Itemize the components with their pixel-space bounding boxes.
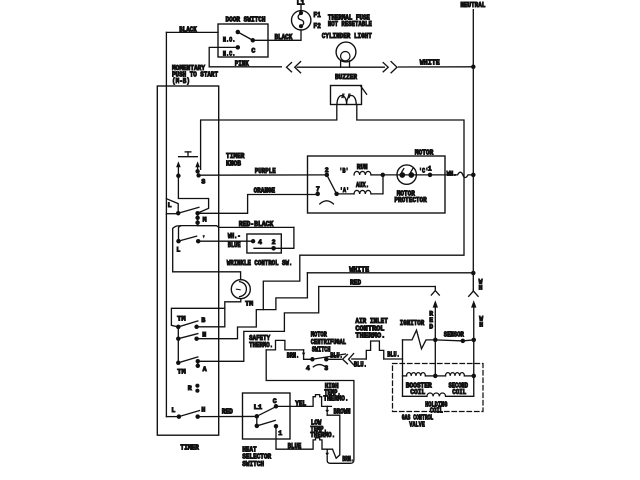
svg-text:WHITE: WHITE: [420, 60, 440, 68]
svg-text:BLU.: BLU.: [387, 351, 400, 359]
door switch common C contact: [251, 38, 256, 43]
wh connector arrow to sensor: [471, 300, 476, 340]
label 1 selector: [278, 430, 282, 437]
label AIR INLET CONTROL THERMO.: [355, 318, 388, 341]
wire blue to gas valve: [384, 358, 403, 360]
connector chevrons pink wire: [287, 62, 301, 73]
timer box: [157, 86, 218, 435]
motor box: [308, 156, 446, 213]
svg-text:S: S: [201, 178, 205, 185]
air inlet control thermostat bump: [366, 341, 383, 359]
svg-text:SENSOR: SENSOR: [444, 331, 465, 339]
wire black to contact L bottom: [166, 416, 179, 418]
wire red H to heat selector L1: [198, 415, 257, 417]
label PINK: [235, 60, 250, 68]
label YEL: [295, 401, 306, 409]
heat selector switch box: [243, 393, 291, 439]
label 2: [272, 239, 276, 246]
motor junction dot run/aux: [381, 173, 386, 178]
svg-text:4: 4: [258, 239, 262, 246]
label WHITE mid: [349, 267, 369, 275]
motor centrifugal actuator arc: [320, 201, 334, 204]
svg-text:TM: TM: [245, 300, 253, 307]
svg-text:BRN.: BRN.: [342, 456, 354, 464]
motor start switch dot: [334, 192, 339, 197]
svg-text:4: 4: [306, 365, 310, 372]
svg-text:COIL: COIL: [410, 389, 425, 397]
svg-text:N.C.: N.C.: [223, 50, 236, 57]
svg-text:RED: RED: [222, 409, 233, 417]
svg-text:DOOR SWITCH: DOOR SWITCH: [226, 17, 266, 25]
wire orange M to motor terminal 7: [198, 195, 318, 214]
label N.C.: [223, 50, 236, 57]
label MOTOR: [415, 150, 434, 158]
label DOOR SWITCH: [226, 17, 266, 25]
wire blue selector 1 to low temp thermostat: [276, 426, 333, 449]
timer contact W dot (wrinkle): [176, 239, 181, 244]
sensor dot right: [472, 338, 477, 343]
label 'C': [419, 167, 429, 174]
gas control valve dashed box: [393, 364, 484, 412]
wire brn return to safety thermo: [266, 350, 354, 463]
label BOOSTER COIL: [406, 383, 433, 397]
timer contact B dot: [194, 325, 199, 330]
label HEAT SELECTOR SWITCH: [242, 446, 272, 469]
timer contact S dots: [195, 169, 200, 177]
svg-text:BROWN: BROWN: [334, 409, 351, 417]
wire red to igniter connector: [319, 286, 436, 288]
wire TM bottom to contact B: [199, 299, 241, 327]
label RUN: [357, 164, 368, 172]
label NEUTRAL: [460, 2, 485, 10]
svg-text:THERMO.: THERMO.: [249, 342, 273, 350]
label TM switch 2: [177, 369, 186, 376]
svg-text:AUX.: AUX.: [356, 182, 369, 190]
motor aux winding: [337, 175, 383, 194]
door switch DS1 box: [218, 24, 268, 57]
wire timer cam common feed: [171, 308, 224, 338]
timer switch arm TM-B: [178, 321, 198, 327]
label F1: [313, 12, 321, 20]
svg-text:WH.-: WH.-: [228, 233, 241, 241]
svg-text:THERMO.: THERMO.: [323, 396, 348, 404]
timer contact N left dot: [176, 336, 181, 341]
high temp output connector arrow: [325, 406, 329, 415]
svg-text:H: H: [201, 406, 205, 413]
centrifugal switch terminal 3 dot: [324, 357, 329, 362]
wrinkle terminal 4 dot: [251, 239, 255, 243]
svg-text:BUZZER: BUZZER: [335, 74, 358, 82]
buzzer left leg wire to timer S: [201, 105, 337, 170]
label S: [201, 178, 205, 185]
timer contact TM left dot: [176, 325, 181, 330]
label GAS CONTROL VALVE: [402, 414, 434, 429]
wire pink-white under cylinder light: [297, 66, 384, 68]
svg-text:BLUE: BLUE: [228, 242, 241, 250]
svg-text:L: L: [176, 246, 180, 253]
svg-text:N: N: [202, 332, 206, 339]
label CYLINDER LIGHT: [322, 33, 372, 41]
red connector chevron: [431, 287, 439, 296]
svg-text:L: L: [168, 202, 172, 209]
label W H vertical upper: [479, 278, 483, 291]
timer contact W right dot: [196, 239, 201, 244]
timer knob symbol: [179, 152, 198, 157]
svg-text:B: B: [201, 317, 205, 324]
door switch arm N.O.-C: [238, 32, 253, 40]
svg-text:TM: TM: [177, 316, 186, 323]
wrinkle terminal 2 dot and stub: [254, 246, 276, 251]
label 7: [316, 186, 320, 193]
door switch N.O. contact: [236, 30, 241, 35]
svg-text:WHITE: WHITE: [349, 267, 369, 275]
gas valve right rail: [473, 340, 475, 396]
label BLACK right: [275, 34, 293, 42]
wrinkle control terminal 2 wire: [274, 227, 294, 248]
label N: [202, 332, 206, 339]
svg-text:BRN.: BRN.: [287, 352, 300, 360]
motor terminal 7 dot: [315, 192, 320, 197]
label WH.: [447, 170, 457, 177]
svg-text:COIL: COIL: [452, 389, 466, 397]
gas valve left rail: [402, 340, 404, 396]
power line L1 label: [297, 0, 305, 8]
label BUZZER: [335, 74, 358, 82]
wire motor WH to neutral: [430, 172, 473, 177]
timer knob left arrow dot: [176, 174, 181, 179]
wire white mid to neutral: [307, 272, 473, 274]
label THERMAL FUSE NOT RESETABLE: [328, 15, 372, 30]
timer contact N dot: [194, 336, 199, 341]
label L bottom: [171, 407, 175, 414]
wire blue to air inlet thermo: [352, 358, 367, 360]
svg-text:TM: TM: [177, 369, 186, 376]
low temp output connector arrow: [325, 449, 329, 456]
svg-text:ORANGE: ORANGE: [254, 188, 276, 196]
svg-text:SWITCH: SWITCH: [242, 461, 264, 469]
centrifugal actuator arc 4-3: [313, 365, 325, 367]
svg-text:1: 1: [278, 430, 282, 437]
label BRN.: [287, 352, 300, 360]
heat selector left lower dot: [255, 416, 260, 428]
wire M to thermostat TM top: [173, 272, 241, 280]
momentary contact L dot: [176, 211, 181, 216]
igniter HE1 zigzag: [403, 330, 436, 349]
svg-text:PINK: PINK: [235, 60, 250, 68]
radiant sensor line: [435, 340, 473, 341]
heat selector arm lower-1: [257, 420, 275, 426]
label MOMENTARY PUSH TO START (M-B): [172, 65, 218, 86]
svg-text:WRINKLE CONTROL SW.: WRINKLE CONTROL SW.: [227, 260, 293, 268]
label 4: [258, 239, 262, 246]
label L1 selector: [254, 404, 263, 411]
label HOLDING COIL: [425, 401, 447, 415]
timer contact A dots: [196, 359, 201, 368]
svg-text:PURPLE: PURPLE: [255, 168, 276, 176]
svg-text:3: 3: [324, 365, 328, 372]
label W H vertical lower: [479, 315, 483, 328]
timer knob left arrow: [176, 161, 181, 173]
timer contact L bottom dot: [177, 414, 182, 419]
wh connector chevron: [469, 290, 478, 296]
buzzer right leg wire to neutral-N staircase: [263, 105, 464, 310]
label IGNITOR: [400, 320, 425, 328]
svg-text:BLACK: BLACK: [275, 34, 293, 42]
svg-text:C: C: [251, 48, 255, 55]
label SAFETY THERMO.: [249, 335, 273, 350]
wire 3 to blue connector: [326, 358, 341, 360]
svg-text:7: 7: [316, 186, 320, 193]
junction dot booster/second: [433, 374, 438, 379]
cylinder light LT1: [336, 42, 356, 67]
svg-text:PROTECTOR: PROTECTOR: [394, 197, 427, 205]
junction dot second/right rail: [472, 374, 477, 379]
label 1: [428, 166, 432, 173]
wire A to red staircase (igniter feed): [198, 287, 319, 362]
label PURPLE: [255, 168, 276, 176]
timer contact A left column: [177, 339, 179, 363]
centrifugal switch arm 4-3: [312, 354, 345, 359]
label HIGH TEMP. THERMO.: [323, 383, 348, 404]
svg-text:IGNITOR: IGNITOR: [400, 320, 425, 328]
holding coil: [403, 393, 474, 396]
timer contact A left dot: [176, 361, 181, 366]
label 4 centrifugal: [306, 365, 310, 372]
label 'A': [340, 187, 350, 194]
label BLUE selector: [288, 443, 302, 451]
door switch N.C. contact: [236, 45, 241, 50]
svg-text:BLACK: BLACK: [179, 27, 197, 35]
label BLU. right of arm: [330, 353, 343, 361]
timer switch arm W: [179, 235, 206, 241]
label BLU. right of bump: [387, 351, 400, 359]
label MOTOR CENTRIFUGAL SWITCH: [311, 331, 346, 354]
svg-text:2: 2: [272, 239, 276, 246]
label L push-to-start: [168, 202, 172, 209]
red connector arrow to igniter: [433, 300, 438, 340]
svg-text:R: R: [188, 385, 192, 392]
momentary switch arm L-M: [178, 207, 199, 213]
label C: [251, 48, 255, 55]
buzzer BZ1: [331, 86, 367, 105]
booster coil: [403, 373, 436, 376]
svg-text:H: H: [479, 284, 483, 291]
label LOW TEMP. THERMO.: [310, 420, 335, 441]
label TIMER: [180, 444, 199, 452]
svg-text:'A': 'A': [340, 187, 350, 194]
svg-text:N.O.: N.O.: [223, 36, 236, 43]
wire door N.C. pink: [209, 47, 281, 66]
label N.O.: [223, 36, 236, 43]
label BLU. below connector: [354, 361, 367, 369]
timer switch arm N: [178, 334, 198, 339]
junction dot neutral/white-top: [471, 65, 476, 70]
wire N to white (neutral) staircase: [197, 273, 308, 339]
safety thermostat bump: [266, 340, 303, 350]
svg-text:CYLINDER LIGHT: CYLINDER LIGHT: [322, 33, 372, 41]
svg-text:BLU.: BLU.: [354, 361, 367, 369]
blue connector chevrons: [343, 354, 354, 365]
label B: [201, 317, 205, 324]
wire brown high temp to junction: [327, 415, 340, 458]
label L wrinkle row: [176, 246, 180, 253]
svg-text:M: M: [203, 217, 207, 224]
label TM circle: [245, 300, 253, 307]
label A: [203, 366, 207, 373]
sensor dot left: [461, 339, 466, 344]
label TIMER KNOB: [226, 153, 245, 168]
label BROWN: [334, 409, 351, 417]
svg-text:THERMO.: THERMO.: [310, 432, 335, 440]
svg-text:YEL: YEL: [295, 401, 306, 409]
second coil: [435, 373, 473, 376]
svg-text:RED-BLACK: RED-BLACK: [239, 221, 274, 229]
svg-text:(M-B): (M-B): [172, 78, 190, 86]
wire wh-blue to wrinkle sw terminal 4: [198, 240, 253, 242]
wire L1 to fuse: [300, 5, 302, 11]
motor terminal 2 dot: [325, 173, 330, 178]
timer contact R dots (unused): [195, 384, 199, 393]
label 2: [325, 167, 329, 174]
svg-text:NEUTRAL: NEUTRAL: [460, 2, 485, 10]
svg-text:SWITCH: SWITCH: [312, 346, 331, 354]
gas valve center rail: [434, 340, 436, 376]
wire knob-dot pennant to M contact: [178, 176, 208, 213]
label BRN. bottom: [342, 456, 354, 464]
wire purple S to motor terminal 2: [199, 174, 327, 176]
motor run winding: [354, 171, 383, 174]
wire M bottom branch: [173, 225, 198, 272]
label RED: [350, 279, 361, 287]
label M: [203, 217, 207, 224]
svg-text:F1: F1: [313, 12, 321, 20]
label C selector: [273, 398, 277, 405]
svg-text:BLUE: BLUE: [288, 443, 302, 451]
svg-text:RED: RED: [350, 279, 361, 287]
connector chevrons white wire: [383, 62, 397, 73]
heat selector terminal C dot: [274, 404, 279, 409]
timer contact M dots: [195, 211, 200, 225]
heat selector terminal L1 dot: [255, 414, 260, 419]
neutral bus wire: [472, 10, 474, 290]
thermostat TM circle: [231, 280, 250, 299]
timer switch arm L-H: [179, 411, 200, 417]
label SECOND COIL: [449, 383, 469, 397]
label BLACK left: [179, 27, 197, 35]
svg-text:KNOB: KNOB: [226, 160, 242, 168]
svg-text:THERMO.: THERMO.: [355, 332, 385, 340]
label MOTOR PROTECTOR: [394, 190, 427, 204]
svg-text:2: 2: [325, 167, 329, 174]
label RED heat: [222, 409, 233, 417]
label R E D vertical: [429, 311, 433, 331]
igniter junction dot: [433, 338, 438, 343]
svg-text:NOT RESETABLE: NOT RESETABLE: [328, 21, 372, 29]
label WHITE top: [420, 60, 440, 68]
timer knob right arrow: [195, 161, 200, 169]
svg-text:A: A: [203, 366, 207, 373]
junction dot neutral/motor WH: [471, 173, 476, 178]
wire red-black M to wrinkle control: [198, 226, 294, 228]
wire yellow C to high temp thermostat: [276, 395, 331, 407]
motor protector OL1: [383, 165, 430, 184]
label 'B': [339, 168, 349, 175]
timer switch arm A: [178, 357, 198, 363]
label WH.- BLUE: [228, 233, 241, 250]
momentary switch L diagonal feed: [166, 199, 178, 212]
thermal fuse F1-F2 (non-resettable): [292, 11, 311, 30]
label SENSOR: [444, 331, 465, 339]
svg-text:F2: F2: [313, 23, 321, 31]
label R: [188, 385, 192, 392]
label ORANGE: [254, 188, 276, 196]
centrifugal switch terminal 4 dot: [310, 357, 315, 362]
wire safety thermo to centrifugal 4 with tick: [302, 350, 313, 359]
wire door C to fuse (black): [253, 30, 301, 40]
svg-text:C: C: [273, 398, 277, 405]
wire black to door N.O.: [166, 31, 218, 33]
label RED-BLACK: [239, 221, 274, 229]
label WRINKLE CONTROL SW.: [227, 260, 293, 268]
junction tick black to L: [166, 213, 178, 215]
motor terminal C dot: [428, 173, 433, 178]
wrinkle control switch box: [247, 234, 281, 253]
svg-text:L1: L1: [254, 404, 263, 411]
svg-text:MOTOR: MOTOR: [415, 150, 434, 158]
wire black main vertical (push-to-start feed): [165, 32, 167, 416]
label AUX.: [356, 182, 369, 190]
svg-text:VALVE: VALVE: [409, 421, 425, 429]
label H: [201, 406, 205, 413]
wire white to neutral: [399, 66, 474, 68]
svg-text:'B': 'B': [339, 168, 349, 175]
junction dot neutral/white-mid: [471, 271, 476, 276]
label TM switch: [177, 316, 186, 323]
motor start switch arm 2-A: [327, 175, 337, 194]
heat selector terminal 1 dot: [274, 424, 279, 429]
label F2: [313, 23, 321, 31]
timer contact H dot: [195, 414, 200, 419]
svg-text:TIMER: TIMER: [180, 444, 199, 452]
svg-text:1: 1: [428, 166, 432, 173]
svg-text:D: D: [429, 323, 433, 330]
svg-text:L: L: [171, 407, 175, 414]
label 3 centrifugal: [324, 365, 328, 372]
heat selector arm L1-C: [257, 407, 276, 416]
svg-text:H: H: [479, 322, 483, 329]
svg-text:WH.: WH.: [447, 170, 457, 177]
